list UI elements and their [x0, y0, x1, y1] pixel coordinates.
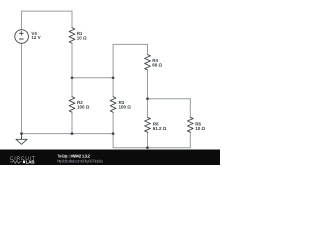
wire mid rail: [72, 77, 113, 79]
svg-text:LAB: LAB: [26, 159, 36, 164]
node junction R3-mid rail: [112, 76, 115, 79]
svg-text:http://circuitlab.com/c9ky6978: http://circuitlab.com/c9ky6978da9a: [57, 159, 104, 164]
wire ground rail: [22, 133, 114, 135]
ground symbol: [16, 134, 27, 145]
resistor R6 zigzag: [187, 117, 193, 132]
resistor R4 zigzag: [145, 55, 151, 71]
resistor R2 zigzag: [69, 97, 75, 113]
wire R6 top lead: [189, 99, 191, 118]
svg-text:61.2 Ω: 61.2 Ω: [153, 126, 167, 131]
CircuitLab logo plug square: [23, 161, 25, 164]
svg-text:|: |: [69, 153, 70, 158]
wire R8 top lead: [147, 99, 149, 118]
node junction R2-ground rail: [71, 132, 74, 135]
svg-text:10 Ω: 10 Ω: [195, 126, 205, 131]
svg-text:ThomDodge: ThomDodge: [57, 153, 69, 158]
svg-text:100 Ω: 100 Ω: [77, 105, 90, 110]
node junction R1-R2-mid rail: [71, 76, 74, 79]
wire R1 column top lead: [71, 11, 73, 28]
resistor R1 zigzag: [69, 28, 75, 43]
resistor R3 zigzag: [110, 97, 116, 113]
node junction R4-R8-R6 rail: [146, 97, 149, 100]
wire R4 top lead: [147, 44, 149, 54]
V4 minus sign: [19, 38, 23, 40]
CircuitLab logo zigzag: [10, 160, 22, 163]
wire R4 bottom lead to junction: [147, 70, 149, 99]
svg-text:HW#2 1.3.2: HW#2 1.3.2: [71, 153, 91, 158]
svg-text:68 Ω: 68 Ω: [152, 62, 162, 67]
wire R4 loop top rail: [113, 43, 147, 45]
node junction R3-ground rail: [112, 132, 115, 135]
wire bottom rail: [113, 147, 190, 149]
wire top rail: [22, 10, 73, 12]
wire V4 column top lead: [21, 11, 23, 30]
footer bar: [0, 150, 220, 166]
wire R6 loop top rail: [148, 98, 191, 100]
wire R3 column upper segment: [112, 44, 114, 96]
svg-text:12 V: 12 V: [31, 35, 40, 40]
V4 plus sign: [19, 31, 23, 35]
voltage source V4 circle: [15, 30, 29, 44]
wire R3 column lower segment: [112, 112, 114, 148]
svg-text:100 Ω: 100 Ω: [119, 105, 132, 110]
node junction V4-ground: [20, 132, 23, 135]
wire R1 bottom lead to mid rail: [71, 43, 73, 78]
resistor R8 zigzag: [145, 117, 151, 132]
wire V4 column bottom to ground junction: [21, 43, 23, 133]
svg-text:10 Ω: 10 Ω: [77, 35, 87, 40]
node junction R8-bottom rail: [146, 146, 149, 149]
wire R6 bottom lead: [189, 132, 191, 148]
wire R2 top lead: [71, 78, 73, 97]
wire R2 bottom lead: [71, 112, 73, 133]
wire R8 bottom lead: [147, 132, 149, 148]
